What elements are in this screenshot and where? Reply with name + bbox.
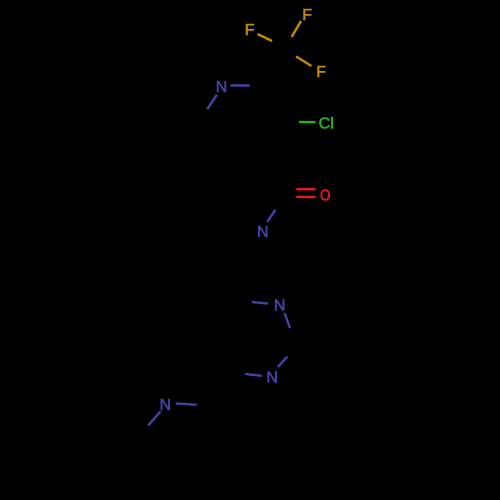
- svg-text:N: N: [257, 224, 269, 241]
- svg-text:F: F: [316, 64, 326, 81]
- svg-text:N: N: [274, 297, 286, 314]
- svg-text:N: N: [160, 397, 172, 414]
- svg-text:F: F: [245, 22, 255, 39]
- svg-text:F: F: [302, 7, 312, 24]
- svg-text:N: N: [216, 79, 228, 96]
- svg-text:N: N: [266, 369, 278, 386]
- svg-text:Cl: Cl: [319, 116, 334, 133]
- svg-text:O: O: [320, 187, 330, 204]
